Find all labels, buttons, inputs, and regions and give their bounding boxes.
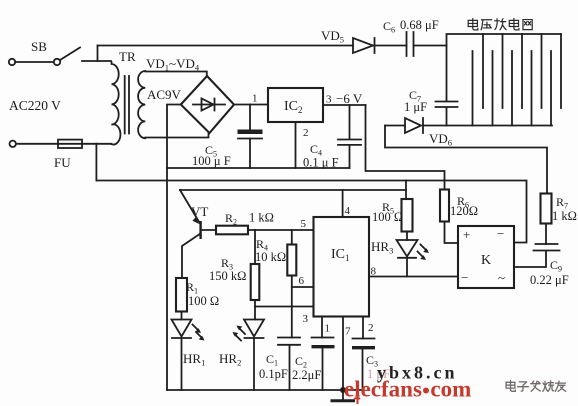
transistor VT base bar <box>199 221 201 239</box>
resistor R2 <box>216 226 248 235</box>
wire IC1 pin6 <box>292 286 314 288</box>
wire SB to transformer <box>82 60 111 62</box>
LED HR1 arrows <box>193 325 205 341</box>
rectifier bridge VD1-VD4 <box>181 76 234 133</box>
wire SB <box>15 61 54 63</box>
wire IC1 pin2 to C3 <box>362 317 364 339</box>
wire common rail under IC2 <box>167 167 350 169</box>
discharge grid bottom teeth <box>473 51 552 126</box>
capacitor C7 <box>436 102 458 126</box>
svg-text:1 μF: 1 μF <box>404 100 427 114</box>
svg-text:2: 2 <box>303 127 309 139</box>
svg-text:120Ω: 120Ω <box>450 204 478 218</box>
transformer TR core <box>125 76 129 134</box>
wire to fuse <box>16 143 58 145</box>
svg-text:3: 3 <box>303 313 309 325</box>
LED HR2 <box>244 320 264 339</box>
wire IC2 pin2 <box>295 122 297 168</box>
transistor VT collector <box>182 234 201 279</box>
wire IC1 pin7 to ground <box>342 317 344 391</box>
svg-text:100 Ω: 100 Ω <box>372 210 403 224</box>
svg-text:8: 8 <box>371 266 377 278</box>
svg-text:~: ~ <box>498 270 505 285</box>
LED HR3 <box>397 240 418 258</box>
svg-text:HR1: HR1 <box>183 351 205 368</box>
wire IC2 pin3 output <box>323 104 366 106</box>
svg-text:VD5: VD5 <box>321 28 344 45</box>
node discharge-grid bottom bus <box>447 125 553 127</box>
svg-text:2.2μF: 2.2μF <box>292 368 321 382</box>
resistor R5 <box>402 199 413 232</box>
wire R5 riser <box>405 181 407 200</box>
resistor R6 <box>440 190 449 222</box>
resistor R4 <box>287 245 296 276</box>
wire FU drop to ground rail <box>95 144 97 181</box>
svg-text:150 kΩ: 150 kΩ <box>209 269 246 283</box>
capacitor C1 <box>278 338 300 391</box>
svg-text:0.1pF: 0.1pF <box>259 367 288 381</box>
svg-text:IC1: IC1 <box>331 247 350 263</box>
node ground junction <box>340 387 346 393</box>
wire IC1 pin1 to C2 <box>321 317 323 338</box>
svg-text:VD6: VD6 <box>429 131 452 148</box>
wire IC1 pin4 <box>342 190 344 217</box>
wire top rail to VD5 <box>98 45 354 47</box>
wire VD6 anode to R7 <box>385 126 547 194</box>
wire R6 to relay <box>445 222 459 244</box>
svg-text:5: 5 <box>301 218 307 230</box>
wire R3 to HR2 <box>254 300 256 320</box>
svg-text:TR: TR <box>119 49 136 64</box>
switch SB lever <box>60 48 80 61</box>
svg-text:6: 6 <box>299 275 305 287</box>
wire IC1 pin3 <box>255 306 314 308</box>
svg-text:+: + <box>463 227 470 242</box>
svg-text:HR3: HR3 <box>371 239 393 256</box>
resistor R7 <box>541 194 552 224</box>
decorative red mark <box>354 391 360 404</box>
svg-text:1: 1 <box>325 323 331 335</box>
wire R7 to C9 <box>545 224 547 245</box>
svg-text:4: 4 <box>345 205 351 217</box>
LED HR3 arrows <box>418 245 430 261</box>
svg-text:0.68 μF: 0.68 μF <box>400 18 439 32</box>
wire C6 to grid <box>414 45 447 47</box>
svg-text:−6 V: −6 V <box>336 91 363 106</box>
transistor VT emitter arrow <box>193 217 200 224</box>
wire lower box top line <box>180 189 406 191</box>
ground <box>342 390 344 400</box>
wire R2 to IC1 pin5 <box>248 229 314 231</box>
wire VD6 anode <box>385 125 405 127</box>
transformer TR primary winding <box>112 62 121 144</box>
node discharge-grid top bus <box>447 34 562 101</box>
diode VD6 <box>405 118 423 133</box>
svg-text:SB: SB <box>31 39 47 54</box>
label elecfans (Chinese) watermark <box>506 381 566 392</box>
svg-text:K: K <box>481 253 491 268</box>
terminal AC bottom <box>10 141 16 147</box>
capacitor C9 <box>514 244 560 267</box>
wire -6V feed down <box>366 105 445 190</box>
wire transformer primary bottom <box>96 143 111 145</box>
wire R4 tap <box>291 230 293 245</box>
svg-text:100 μ F: 100 μ F <box>192 154 231 168</box>
resistor R1 <box>176 278 187 312</box>
svg-text:1 kΩ: 1 kΩ <box>552 209 577 223</box>
LED HR1 <box>172 320 192 339</box>
wire bottom ground rail <box>167 389 363 391</box>
svg-text:C6: C6 <box>383 19 395 35</box>
svg-text:VD1~VD4: VD1~VD4 <box>146 56 200 73</box>
capacitor C6 <box>407 32 414 56</box>
svg-text:0.22 μF: 0.22 μF <box>530 273 569 287</box>
wire IC1 pin8 to relay <box>369 276 458 278</box>
discharge grid top teeth <box>483 34 561 108</box>
svg-text:100 Ω: 100 Ω <box>188 294 219 308</box>
capacitor C3 <box>353 338 375 340</box>
label discharge-grid (Chinese) <box>468 19 532 30</box>
transistor VT emitter <box>180 190 200 224</box>
svg-text:IC2: IC2 <box>284 99 303 115</box>
svg-text:HR2: HR2 <box>219 351 241 368</box>
svg-text:elecfans●com: elecfans●com <box>344 377 471 402</box>
wire bridge to IC2 pin1 <box>234 104 268 106</box>
wire secondary bottom to bridge <box>145 133 208 138</box>
LED HR2 arrows <box>233 326 246 341</box>
capacitor C2 <box>312 337 334 339</box>
svg-text:2: 2 <box>368 322 374 334</box>
svg-text:VT: VT <box>191 204 208 219</box>
svg-text:FU: FU <box>54 155 71 170</box>
switch SB terminal left <box>9 59 15 65</box>
wire ground rail to relay <box>96 181 526 243</box>
wire VD6 to grid <box>423 125 447 127</box>
svg-text:C1: C1 <box>266 352 278 368</box>
svg-text:3: 3 <box>326 94 332 106</box>
transformer TR secondary winding <box>138 71 145 138</box>
wire R5 to HR3 <box>406 232 408 241</box>
wire fuse to primary <box>82 143 96 145</box>
capacitor C4 <box>338 105 361 168</box>
svg-text:1: 1 <box>252 93 258 105</box>
fuse FU <box>58 140 82 148</box>
svg-text:AC220 V: AC220 V <box>9 98 61 113</box>
bridge inner diode <box>193 99 225 111</box>
wire bridge left vertex to lower box <box>167 105 181 391</box>
diode VD5 <box>353 38 375 53</box>
wire secondary top to bridge <box>145 72 207 77</box>
svg-text:10 kΩ: 10 kΩ <box>255 250 286 264</box>
wire base to R2 <box>202 229 216 231</box>
wire R3 tap <box>254 230 256 264</box>
wire R4 bottom to C1 <box>291 276 293 338</box>
svg-text:−: − <box>497 226 504 241</box>
resistor R3 <box>251 264 260 300</box>
wire VD5 to C6 <box>375 45 407 47</box>
svg-text:1 kΩ: 1 kΩ <box>249 211 274 225</box>
svg-text:R2: R2 <box>225 211 237 227</box>
wire R1 to HR1 <box>181 312 183 320</box>
IC U1 <box>314 217 370 317</box>
svg-text:C9: C9 <box>550 258 562 274</box>
wire riser to top rail <box>97 46 99 62</box>
switch SB terminal right <box>54 59 60 65</box>
relay K <box>458 226 514 288</box>
svg-text:7: 7 <box>345 326 351 338</box>
svg-text:−: − <box>461 270 468 285</box>
capacitor C5 <box>249 105 251 169</box>
svg-text:AC9V: AC9V <box>147 87 182 102</box>
op-amp IC2 regulator <box>268 88 323 122</box>
